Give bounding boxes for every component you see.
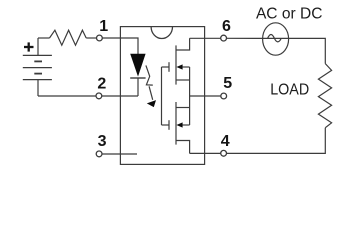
wire pin 5 <box>190 95 222 97</box>
svg-text:2: 2 <box>97 75 106 92</box>
pin 1 <box>97 35 103 41</box>
pin 6 <box>221 35 227 41</box>
light arrow <box>146 65 156 107</box>
wire load to pin 4 <box>226 128 325 154</box>
wire pin 3 stub <box>102 153 137 155</box>
IC notch <box>151 27 172 39</box>
AC source V1 <box>263 23 289 55</box>
pin 3 <box>96 151 102 157</box>
svg-text:5: 5 <box>223 75 232 92</box>
wire pin 4 to IC <box>190 152 221 154</box>
pin 5 <box>221 93 227 99</box>
svg-text:6: 6 <box>222 18 231 35</box>
battery B1 <box>23 38 52 96</box>
wire pin 6 to IC <box>190 37 222 39</box>
load resistor <box>318 64 331 128</box>
pin 2 <box>96 93 102 99</box>
svg-text:4: 4 <box>221 133 230 150</box>
source rail <box>189 67 191 125</box>
mosfet Q1 <box>162 38 190 84</box>
wire battery top to resistor <box>38 37 50 39</box>
wire pin 6 to AC source <box>226 37 262 39</box>
svg-text:3: 3 <box>98 133 107 150</box>
wire resistor to pin 1 <box>86 37 96 39</box>
LED D1 <box>130 54 145 96</box>
resistor R1 <box>50 30 87 45</box>
wire pin 2 to LED cathode <box>101 95 138 97</box>
svg-text:AC or DC: AC or DC <box>256 6 323 23</box>
wire AC source to load <box>289 38 326 63</box>
pin 4 <box>221 150 227 156</box>
battery plus sign <box>24 42 34 51</box>
svg-text:1: 1 <box>99 18 108 35</box>
mosfet Q2 <box>162 102 190 153</box>
gate rail <box>161 67 163 125</box>
svg-text:LOAD: LOAD <box>270 82 309 99</box>
wire pin 1 to LED anode <box>102 38 138 54</box>
wire battery bottom to pin 2 <box>38 95 96 97</box>
IC package U1 <box>120 27 204 165</box>
